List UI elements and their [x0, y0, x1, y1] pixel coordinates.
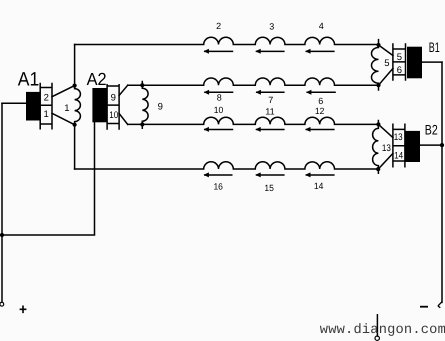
wire right rail (-): [441, 62, 443, 302]
arrow under L8: [204, 92, 233, 94]
svg-text:6: 6: [397, 65, 402, 76]
terminal block B1 pin box: [393, 44, 406, 80]
svg-text:6: 6: [318, 96, 323, 106]
svg-text:8: 8: [217, 93, 222, 103]
arrow under L7: [256, 92, 285, 94]
svg-text:www.diangon.com: www.diangon.com: [320, 323, 445, 338]
svg-text:11: 11: [265, 107, 275, 117]
svg-text:10: 10: [214, 105, 224, 115]
terminal bottom (watermark area): [375, 336, 379, 340]
connector B1 body: [407, 47, 422, 79]
arrow under L11: [256, 129, 285, 131]
inductor/coil 5 vertical winding: [371, 40, 378, 90]
svg-text:A2: A2: [87, 69, 107, 89]
connector A2 body: [92, 88, 107, 122]
connector B1 pin lines to node: [379, 45, 393, 85]
junction node coil1 bottom: [73, 123, 77, 127]
junction node coil5 bottom: [376, 83, 380, 87]
wire row2 with inductors L8 L7 L6: [128, 78, 379, 85]
arrow under L10: [204, 129, 233, 131]
svg-text:2: 2: [44, 92, 49, 103]
svg-text:12: 12: [315, 106, 325, 116]
svg-text:3: 3: [269, 22, 274, 32]
arrow under L16: [204, 174, 233, 176]
plus sign: [20, 306, 27, 314]
inductor/coil 13 vertical winding: [373, 121, 379, 174]
junction node right rail tap: [440, 143, 444, 147]
arrow under L14: [306, 174, 335, 176]
arrow under L4: [306, 51, 335, 53]
svg-text:B2: B2: [425, 123, 438, 138]
junction node coil9 top: [140, 83, 144, 87]
junction node left rail tap: [0, 233, 4, 237]
terminal block A2 pin box: [107, 85, 119, 129]
svg-text:15: 15: [264, 183, 274, 193]
junction node coil13 top: [376, 122, 380, 126]
arrow under L2: [204, 49, 336, 178]
svg-text:1: 1: [64, 103, 69, 114]
svg-text:B1: B1: [429, 40, 440, 55]
svg-text:5: 5: [397, 52, 402, 63]
terminal + left: [0, 302, 4, 306]
wire A2 bottom lead down and left to rail: [2, 122, 95, 235]
svg-text:4: 4: [319, 21, 324, 31]
svg-text:14: 14: [314, 181, 324, 191]
svg-text:A1: A1: [18, 69, 40, 91]
arrow under L12: [306, 129, 335, 131]
svg-text:10: 10: [109, 110, 118, 121]
wire bottom stub to terminal near watermark: [376, 315, 378, 336]
wire left rail (+): [1, 103, 3, 302]
svg-text:2: 2: [216, 21, 221, 31]
wire row3 with inductors L10 L11 L12: [128, 117, 379, 124]
connector A1 body: [26, 92, 40, 121]
terminal block B2 pin box: [393, 124, 405, 167]
svg-text:5: 5: [384, 58, 389, 69]
arrow under L6: [307, 92, 336, 94]
connector B2 pin lines to node: [378, 124, 393, 169]
svg-text:7: 7: [268, 95, 273, 105]
inductor/coil 9 vertical winding: [142, 82, 148, 129]
connector A1 pin lines to node: [52, 86, 75, 125]
junction node coil13 bottom: [376, 167, 380, 171]
minus sign: [420, 306, 428, 308]
terminal - right hook: [438, 302, 442, 308]
arrow under L3: [256, 51, 285, 53]
inductor/coil 1 vertical winding on left bus: [75, 45, 81, 170]
wire B1 right lead: [422, 61, 442, 63]
svg-text:13: 13: [394, 132, 403, 143]
wire row4 with inductors L16 L15 L14: [75, 162, 379, 169]
connector B2 body: [406, 131, 421, 162]
svg-text:13: 13: [382, 143, 391, 154]
svg-text:9: 9: [158, 101, 163, 112]
wire A1 left lead: [2, 102, 26, 104]
wire row1 with inductors L2 L3 L4: [75, 37, 379, 44]
connector A2 pin lines to node: [119, 85, 128, 124]
svg-text:1: 1: [43, 109, 48, 120]
arrow under L15: [256, 174, 285, 176]
svg-text:16: 16: [213, 181, 223, 191]
svg-text:9: 9: [111, 93, 116, 104]
wire B2 right lead to rail: [420, 144, 442, 146]
svg-text:14: 14: [394, 151, 403, 162]
terminal block A1 pin box: [40, 84, 52, 129]
junction node coil5 top: [376, 43, 380, 47]
junction node coil1 top: [73, 84, 77, 88]
junction node coil9 bottom: [140, 122, 144, 126]
